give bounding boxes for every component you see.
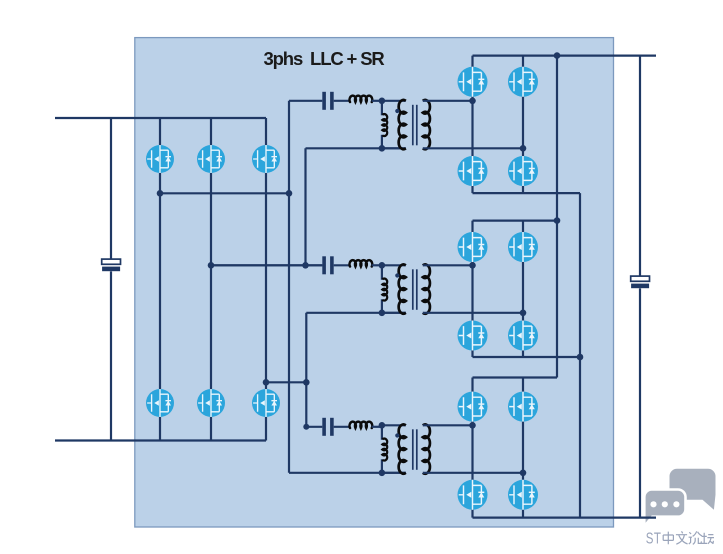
svg-text:3phs LLC + SR: 3phs LLC + SR — [264, 48, 385, 69]
svg-text:ST: ST — [646, 530, 662, 547]
